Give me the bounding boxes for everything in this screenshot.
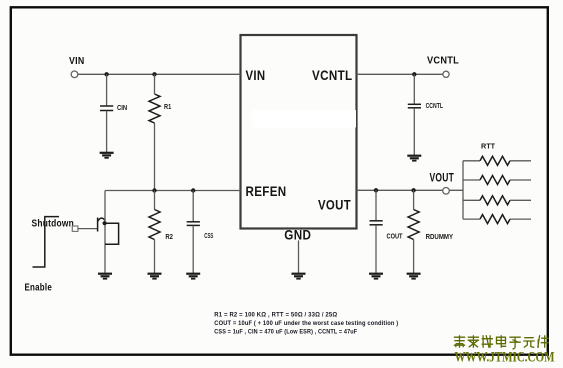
wire RTT bus vertical	[462, 161, 464, 219]
wire CCNTL to ground	[413, 108, 415, 155]
svg-text:VIN: VIN	[246, 67, 266, 83]
wire COUT upper lead	[375, 190, 377, 220]
svg-text:RTT: RTT	[481, 141, 495, 150]
node junction COUT	[374, 188, 378, 192]
watermark logo text	[454, 335, 549, 349]
svg-text:COUT = 10uF ( + 100 uF under t: COUT = 10uF ( + 100 uF under the worst c…	[214, 320, 398, 327]
resistor RTT branch 1	[463, 156, 531, 165]
svg-text:REFEN: REFEN	[246, 183, 287, 199]
resistor RTT branch 2	[463, 176, 531, 185]
svg-text:R1 = R2 = 100 KΩ , RTT = 50Ω /: R1 = R2 = 100 KΩ , RTT = 50Ω / 33Ω / 25Ω	[214, 311, 337, 318]
svg-text:CCNTL: CCNTL	[426, 103, 444, 110]
wire RDUMMY to ground	[413, 240, 415, 274]
wire CSS to ground	[192, 226, 194, 274]
node junction R2	[152, 188, 156, 192]
svg-text:CSS = 1uF , CIN = 470 uF (Low: CSS = 1uF , CIN = 470 uF (Low ESR) , CCN…	[214, 328, 357, 335]
capacitor COUT	[370, 221, 383, 225]
wire R2 to ground	[154, 240, 156, 274]
op-amp U1 regulator block	[241, 35, 357, 229]
svg-text:CIN: CIN	[117, 105, 127, 112]
node junction CIN	[104, 72, 108, 76]
terminal VIN	[71, 71, 78, 78]
capacitor CSS	[187, 222, 200, 226]
wire Shutdown to gate	[78, 228, 98, 230]
node junction CSS	[191, 188, 195, 192]
svg-text:Shutdown: Shutdown	[32, 218, 75, 230]
svg-text:VCNTL: VCNTL	[312, 67, 353, 83]
capacitor CCNTL	[408, 104, 421, 108]
svg-text:VCNTL: VCNTL	[427, 54, 459, 66]
svg-text:VOUT: VOUT	[318, 196, 351, 212]
resistor RTT branch 3	[463, 196, 531, 205]
ground CCNTL	[407, 156, 421, 161]
wire REFEN rail	[105, 190, 241, 192]
ground Q1 source	[98, 274, 112, 279]
wire GND pin	[298, 229, 300, 274]
ground GND pin	[292, 274, 306, 279]
wire CIN to ground	[106, 111, 108, 153]
terminal Shutdown	[72, 226, 78, 231]
wire CIN branch	[106, 74, 108, 105]
capacitor CIN	[100, 106, 113, 111]
wire CSS upper lead	[192, 191, 194, 222]
terminal VCNTL	[443, 71, 449, 77]
wire COUT to ground	[375, 225, 377, 273]
svg-text:WWW.JTMIC.COM: WWW.JTMIC.COM	[455, 349, 555, 365]
svg-text:COUT: COUT	[387, 234, 404, 241]
ground CIN	[100, 153, 114, 158]
svg-text:Enable: Enable	[25, 282, 53, 294]
wire R1 lower lead to REFEN rail	[154, 123, 156, 191]
resistor R2	[149, 210, 160, 240]
node junction R1	[152, 72, 156, 76]
wire RDUMMY upper lead	[413, 190, 415, 209]
ground CSS	[186, 274, 200, 279]
transistor Q1	[98, 191, 119, 274]
node junction RDUMMY	[411, 188, 415, 192]
resistor RTT branch 4	[463, 215, 531, 224]
enable step waveform	[33, 217, 60, 267]
svg-text:R1: R1	[164, 104, 171, 111]
ground COUT	[369, 274, 383, 279]
svg-text:GND: GND	[284, 226, 311, 242]
ground R2	[148, 274, 162, 279]
node junction CCNTL	[412, 72, 416, 76]
svg-text:RDUMMY: RDUMMY	[426, 234, 454, 241]
svg-text:R2: R2	[165, 234, 173, 241]
svg-text:VOUT: VOUT	[430, 170, 455, 184]
wire CCNTL upper lead	[413, 74, 415, 104]
wire R1 upper lead	[154, 74, 156, 94]
resistor R1	[149, 94, 160, 123]
wire VOUT output rail	[357, 189, 464, 191]
wire R2 upper lead	[154, 191, 156, 210]
resistor RDUMMY	[408, 210, 419, 240]
svg-text:VIN: VIN	[69, 56, 85, 67]
wire VCNTL output	[357, 73, 444, 75]
ground RDUMMY	[407, 274, 421, 279]
pin label GND	[284, 226, 314, 242]
svg-text:CSS: CSS	[204, 233, 213, 240]
wire VIN input rail	[78, 73, 241, 75]
terminal VOUT	[443, 188, 450, 195]
